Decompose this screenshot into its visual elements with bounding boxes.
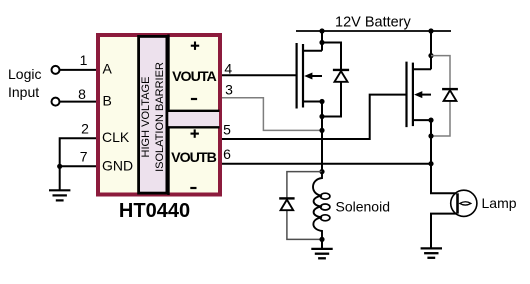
VOUTB plus polarity mark [191,129,199,137]
op-amp U1 HT0440 isolated driver IC body [98,35,220,195]
junction Q2 source [428,118,433,123]
svg-text:VOUTB: VOUTB [171,150,216,166]
isolation barrier label [140,62,166,172]
junction rail Q1 [319,28,324,33]
svg-text:Solenoid: Solenoid [336,199,391,215]
wire Q2 drain to rail [430,31,432,69]
svg-text:5: 5 [223,122,231,138]
diode D3 symbol [279,197,294,199]
diode D3 flyback loop [287,172,322,240]
diode D1 body diode loop [322,43,341,117]
ground solenoid [311,249,332,258]
wire Q1 drain to rail [321,31,323,51]
VOUTA minus polarity mark [191,98,197,100]
transistor Q2 NMOS [407,62,413,128]
junction Q1 drain / diode D1 [319,40,324,45]
wire pin1 A [60,69,96,71]
high voltage isolation barrier strip [139,36,167,193]
VOUTB output section box [169,127,220,195]
wire solenoid to ground [321,239,323,248]
input terminal 8 [52,98,60,106]
svg-text:CLK: CLK [102,129,130,145]
wire Q1 source down to solenoid [321,102,323,172]
svg-text:A: A [103,61,113,77]
svg-text:2: 2 [81,121,89,137]
VOUTA output section box [169,35,220,111]
wire lamp to ground [431,214,456,248]
junction D1 return [319,114,324,119]
svg-text:ISOLATION BARRIER: ISOLATION BARRIER [154,62,166,172]
lamp circle [451,190,477,216]
diode D2 body diode loop [431,56,450,136]
diode D1 symbol [333,69,349,71]
isolation barrier horizontal band fill [166,111,219,128]
junction pin7/pin2 [57,164,62,169]
input terminal 1 [52,66,60,74]
svg-text:Lamp: Lamp [482,195,517,211]
lamp base bar [456,193,459,213]
wire pin4 to Q1 gate [222,74,296,76]
svg-text:6: 6 [223,146,231,162]
junction pin6 net [428,161,433,166]
junction Q2 drain / diode D2 [428,53,433,58]
svg-text:HIGH VOLTAGE: HIGH VOLTAGE [140,77,152,158]
junction pin3 net [319,128,324,133]
svg-text:B: B [103,93,112,109]
junction solenoid bottom [319,237,324,242]
svg-text:VOUTA: VOUTA [172,69,216,85]
svg-text:1: 1 [80,52,88,68]
junction rail Q2 [428,28,433,33]
transistor Q1 NMOS [297,43,303,109]
ground lamp [421,248,442,257]
lamp filament diamond [460,202,471,205]
wire pin5 to Q2 gate [222,95,406,139]
ground logic [49,190,70,200]
inductor solenoid coil [313,172,322,240]
svg-text:Logic: Logic [8,66,41,82]
diode D2 symbol [442,88,458,90]
junction D2 return [428,133,433,138]
svg-text:HT0440: HT0440 [119,200,190,222]
VOUTA plus polarity mark [191,42,199,50]
Q2 body arrow [414,91,422,98]
svg-text:Input: Input [8,84,39,100]
VOUTB minus polarity mark [190,187,196,189]
svg-text:8: 8 [78,86,86,102]
junction solenoid top [319,169,324,174]
svg-text:4: 4 [224,60,232,76]
svg-text:12V Battery: 12V Battery [335,14,412,30]
svg-text:7: 7 [80,149,88,165]
wire Q2 source down to lamp [431,120,456,193]
junction Q1 source [319,99,324,104]
12V battery rail [296,30,451,32]
wire pin3 to Q1 source net [222,98,322,131]
wire pin2 CLK [60,138,96,190]
svg-text:3: 3 [225,81,233,97]
wire pin6 to Q2 source net [222,163,431,165]
wire pin7 GND [60,165,96,167]
wire pin8 B [60,101,96,103]
Q1 body arrow [304,73,312,80]
svg-text:GND: GND [102,158,133,174]
